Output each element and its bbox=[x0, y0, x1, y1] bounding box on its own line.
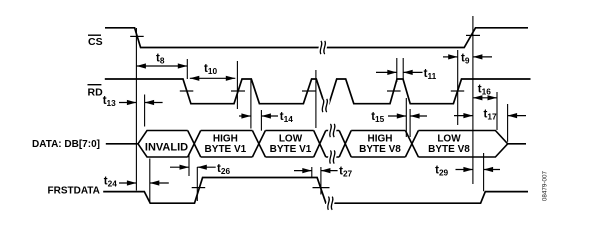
signal label CS bbox=[88, 35, 103, 48]
tick RD fall 1 bbox=[180, 90, 194, 92]
tick RD rise 4 bbox=[387, 90, 401, 92]
wire CS waveform bbox=[105, 28, 528, 48]
svg-text:BYTE V1: BYTE V1 bbox=[205, 144, 247, 155]
ref line t10 right (RD rise 1) bbox=[236, 61, 238, 109]
tick CS fall bbox=[130, 35, 144, 37]
ref line t8 right (RD fall 1) bbox=[186, 59, 188, 79]
svg-text:DATA: DB[7:0]: DATA: DB[7:0] bbox=[32, 139, 100, 150]
svg-text:FRSTDATA: FRSTDATA bbox=[48, 186, 100, 197]
ref line t26 left bbox=[188, 155, 190, 177]
ref line t29 right bbox=[483, 153, 485, 191]
bus segment HIGH BYTE V1 bbox=[201, 131, 253, 158]
svg-text:LOW: LOW bbox=[437, 133, 461, 144]
svg-text:BYTE V1: BYTE V1 bbox=[270, 144, 312, 155]
svg-text:HIGH: HIGH bbox=[368, 133, 393, 144]
tick CS rise bbox=[466, 34, 480, 36]
svg-text:LOW: LOW bbox=[279, 133, 303, 144]
ref line t13 right bbox=[144, 95, 146, 127]
svg-text:INVALID: INVALID bbox=[145, 141, 188, 153]
node X5 bbox=[405, 131, 418, 158]
ref line t17 right bbox=[507, 104, 509, 142]
break on RD bbox=[322, 99, 327, 112]
ref line t14 left (RD fall 2) bbox=[250, 80, 252, 129]
tick RD rise 2 bbox=[302, 90, 316, 92]
ref line t15 left bbox=[405, 98, 407, 137]
bus segment LOW BYTE V1 bbox=[265, 131, 313, 158]
wire FRSTDATA waveform bbox=[103, 178, 528, 204]
dimension t10 bbox=[190, 63, 236, 81]
bus segment HIGH BYTE V8 bbox=[351, 131, 405, 158]
ref line t16 right bbox=[496, 92, 498, 130]
dimension t16 bbox=[473, 83, 497, 100]
wire RD waveform bbox=[105, 79, 531, 104]
svg-text:08479-007: 08479-007 bbox=[541, 170, 548, 201]
tick FRSTDATA fall bbox=[313, 187, 330, 189]
ref line t11 right bbox=[402, 58, 404, 79]
ref line t11 left bbox=[396, 58, 398, 82]
ref line RD rise 2 bbox=[315, 70, 317, 128]
svg-text:BYTE V8: BYTE V8 bbox=[359, 144, 401, 155]
node X3 bbox=[314, 131, 326, 158]
ref line t14 right bbox=[260, 110, 262, 131]
node X2 bbox=[252, 131, 265, 158]
bus segment LOW BYTE V8 bbox=[418, 131, 526, 158]
break on DATA bottom bbox=[330, 150, 335, 163]
ref line t27 right bbox=[320, 167, 322, 195]
break on DATA top bbox=[330, 124, 335, 137]
ref line t15 right bbox=[409, 109, 411, 137]
ref line CS rise bbox=[472, 16, 474, 184]
dimension t17 bbox=[454, 109, 526, 122]
wire DATA bus lead bbox=[106, 143, 138, 145]
svg-text:HIGH: HIGH bbox=[213, 133, 238, 144]
break on FRSTDATA low bbox=[328, 197, 333, 210]
ref line t24 right bbox=[149, 159, 151, 203]
dimension t15 bbox=[371, 111, 427, 124]
tick RD rise 1 bbox=[231, 90, 245, 92]
signal label RD bbox=[88, 85, 104, 99]
dimension t13 bbox=[103, 95, 163, 108]
tick RD rise 5 bbox=[451, 90, 464, 92]
svg-text:CS: CS bbox=[88, 36, 103, 48]
dimension t9 bbox=[443, 53, 492, 66]
dimension t29 bbox=[435, 164, 500, 177]
dimension t24 bbox=[104, 175, 169, 188]
svg-text:RD: RD bbox=[88, 86, 104, 98]
ref line t26 right bbox=[196, 167, 198, 201]
ref line t9 left (RD rise 5) bbox=[457, 50, 459, 125]
node X4 bbox=[339, 131, 351, 158]
bus segment INVALID bbox=[138, 131, 188, 158]
dimension t11 bbox=[376, 68, 437, 81]
node X1 bbox=[188, 131, 201, 158]
ref line t27 left bbox=[311, 167, 313, 177]
break on CS low bbox=[320, 41, 325, 54]
bus segment break bbox=[326, 131, 339, 158]
dimension t26 bbox=[170, 163, 230, 176]
ref line CS fall bbox=[135, 28, 137, 191]
dimension t8 bbox=[136, 52, 187, 68]
dimension t14 bbox=[239, 111, 293, 124]
svg-text:BYTE V8: BYTE V8 bbox=[428, 144, 470, 155]
dimension t27 bbox=[294, 166, 353, 179]
tick FRSTDATA rise bbox=[192, 187, 206, 189]
